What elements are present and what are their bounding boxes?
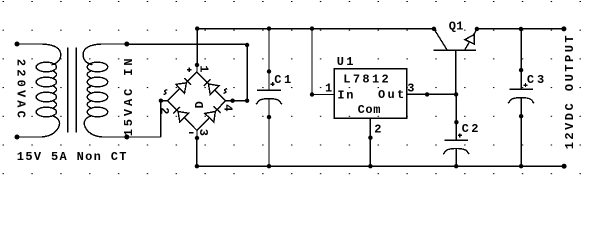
wire top bus output segment <box>477 28 564 30</box>
bridge plus mark <box>187 67 192 72</box>
diode bottom-left <box>173 107 188 122</box>
U1 pin 3 pad <box>425 92 429 96</box>
svg-text:15V 5A Non CT: 15V 5A Non CT <box>17 150 128 164</box>
svg-text:2: 2 <box>374 123 381 137</box>
transistor Q1 <box>434 29 477 95</box>
bridge tilde right <box>223 89 227 94</box>
wire up to bridge left <box>160 101 162 137</box>
wire bottom ground bus <box>197 165 564 167</box>
junction bridge right corner <box>245 99 249 103</box>
terminal primary bottom <box>15 135 20 140</box>
junction output node <box>454 92 458 96</box>
terminal secondary top <box>124 42 129 47</box>
diode bottom-right <box>205 106 221 122</box>
junction U1 in top <box>310 26 314 30</box>
svg-text:In: In <box>337 89 355 103</box>
junction bridge top <box>195 63 199 67</box>
junction C3 bottom <box>519 164 523 168</box>
diode top-right <box>204 79 219 94</box>
U1 pin 1 wire <box>312 29 334 95</box>
wire bridge left stub <box>161 100 168 102</box>
junction Q1 collector <box>432 27 436 31</box>
bridge rectifier D diamond <box>167 72 225 131</box>
diode top-left <box>176 78 191 93</box>
wire secondary bottom to bridge <box>127 136 161 138</box>
svg-text:15VAC IN: 15VAC IN <box>122 55 136 136</box>
wire down to bridge right <box>246 44 248 100</box>
transformer secondary winding <box>83 44 127 137</box>
junction Q1 emitter <box>475 27 479 31</box>
U1 pin 2 pad <box>368 136 372 140</box>
junction C1 bottom <box>267 164 271 168</box>
svg-text:2: 2 <box>157 107 171 114</box>
capacitor C1 <box>256 29 282 167</box>
junction C3 top <box>519 27 523 31</box>
U1 pin 2 wire <box>369 118 371 166</box>
svg-text:L7812: L7812 <box>343 73 391 87</box>
transformer primary winding <box>17 44 61 137</box>
junction bus bottom left corner <box>195 164 199 168</box>
junction bridge left <box>159 99 163 103</box>
wire top bus input segment <box>197 28 434 30</box>
junction bus corner <box>195 26 199 30</box>
svg-text:C2: C2 <box>462 122 481 136</box>
svg-text:4: 4 <box>220 104 234 111</box>
junction C1 top <box>267 26 271 30</box>
op-amp U1 regulator box <box>334 69 406 119</box>
svg-text:D: D <box>193 101 207 108</box>
svg-text:1: 1 <box>325 81 332 95</box>
bridge tilde left <box>164 90 168 95</box>
svg-text:U1: U1 <box>337 55 356 69</box>
svg-text:C1: C1 <box>274 73 293 87</box>
svg-text:3: 3 <box>407 82 414 96</box>
junction bridge right pad <box>230 99 234 103</box>
junction ac corner <box>245 43 249 47</box>
terminal output minus <box>562 164 567 169</box>
wire secondary top to bridge <box>127 43 247 45</box>
capacitor C2 <box>443 94 469 166</box>
junction C2 bottom <box>454 164 458 168</box>
svg-text:12VDC OUTPUT: 12VDC OUTPUT <box>563 33 577 149</box>
terminal secondary bottom <box>124 135 129 140</box>
junction bridge bottom <box>195 136 199 140</box>
bridge bottom stub <box>196 131 198 139</box>
terminal primary top <box>15 42 20 47</box>
svg-text:Out: Out <box>378 88 407 102</box>
bridge minus mark <box>189 132 194 134</box>
wire bridge right stub <box>226 100 248 102</box>
U1 pin 1 pad <box>310 92 314 96</box>
svg-text:220VAC: 220VAC <box>13 59 27 121</box>
wire bridge bottom to ground bus <box>196 138 198 166</box>
svg-text:C3: C3 <box>527 73 547 87</box>
U1 pin 3 wire <box>407 93 457 95</box>
capacitor C3 <box>508 29 534 166</box>
wire bridge top to bus <box>196 29 198 65</box>
bridge top stub <box>196 65 198 72</box>
svg-text:Com: Com <box>358 103 381 117</box>
svg-text:3: 3 <box>196 129 210 136</box>
transformer core <box>68 48 77 133</box>
svg-text:Q1: Q1 <box>449 20 464 34</box>
junction U1 pin2 bottom <box>368 164 372 168</box>
terminal output plus <box>561 26 566 31</box>
